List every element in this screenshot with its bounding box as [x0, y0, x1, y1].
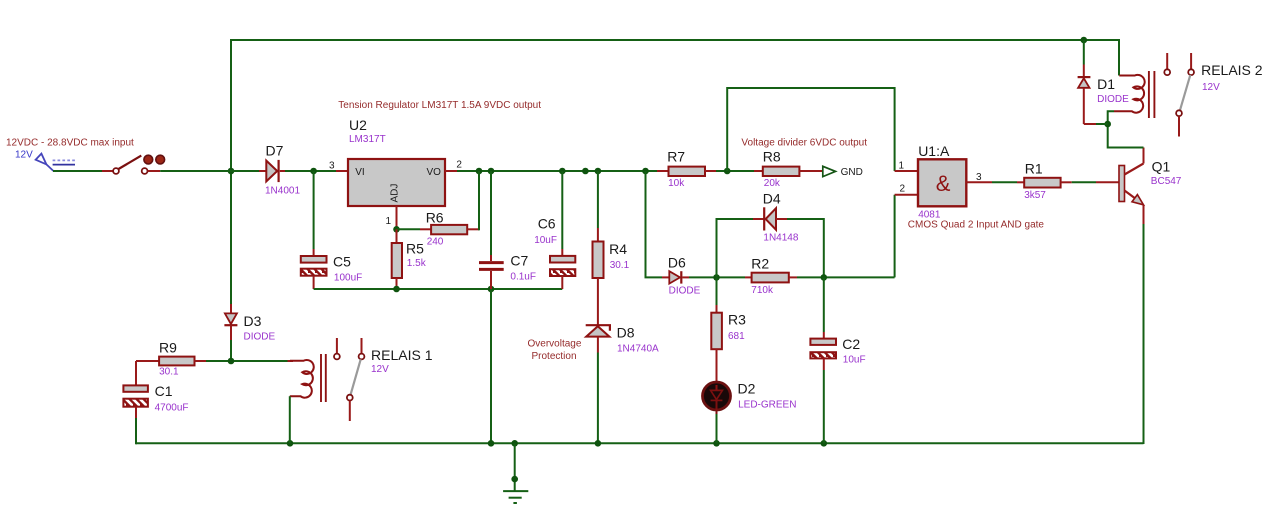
svg-text:&: &: [936, 171, 951, 196]
node junction R7/R8 divider tap: [724, 168, 731, 175]
wire D4 right side down to R2 right node: [787, 219, 824, 277]
svg-text:RELAIS 1: RELAIS 1: [371, 347, 433, 363]
svg-text:R3: R3: [728, 312, 746, 328]
capacitor C6: [534, 171, 575, 289]
wire R6 up to rail: [478, 171, 480, 230]
wire U1 pin3 to R1: [966, 181, 992, 183]
svg-text:681: 681: [728, 331, 745, 342]
svg-text:DIODE: DIODE: [1097, 94, 1129, 105]
svg-text:R2: R2: [751, 256, 769, 272]
svg-text:12V: 12V: [15, 150, 33, 161]
resistor R7: [657, 149, 716, 189]
relay 2 contacts: [1164, 53, 1262, 137]
svg-text:30.1: 30.1: [159, 367, 179, 378]
svg-text:D4: D4: [763, 190, 781, 206]
capacitor C7: [479, 171, 536, 289]
diode D7: [259, 143, 300, 197]
svg-text:C5: C5: [333, 253, 351, 269]
wire ADJ to R6: [397, 228, 421, 230]
svg-text:0.1uF: 0.1uF: [510, 272, 536, 283]
inductor relay 2 coil: [1114, 71, 1154, 118]
svg-text:12V: 12V: [371, 364, 389, 375]
svg-text:DIODE: DIODE: [669, 285, 701, 296]
svg-text:VO: VO: [427, 167, 442, 178]
svg-text:DIODE: DIODE: [244, 332, 276, 343]
svg-text:D7: D7: [266, 143, 284, 159]
svg-text:R1: R1: [1025, 160, 1043, 176]
resistor R8: [754, 149, 822, 189]
svg-text:U1:A: U1:A: [918, 143, 950, 159]
wire U2 pin1 ADJ lead: [396, 206, 398, 229]
wire C7 column continues to bottom rail: [490, 289, 492, 443]
wire C2 to bottom rail: [823, 370, 825, 443]
svg-text:RELAIS 2: RELAIS 2: [1201, 62, 1263, 78]
svg-text:10uF: 10uF: [534, 235, 557, 246]
transistor Q1 BC547: [1119, 148, 1182, 225]
capacitor C2: [810, 277, 865, 370]
wire regulator bottom line: [314, 288, 563, 290]
wire D7 to U2 pin3: [285, 170, 336, 172]
svg-text:3k57: 3k57: [1024, 190, 1046, 201]
svg-text:R7: R7: [667, 149, 685, 165]
wire Q1 collector feed: [1108, 111, 1144, 147]
svg-text:R8: R8: [763, 149, 781, 165]
svg-text:C1: C1: [155, 383, 173, 399]
svg-text:GND: GND: [841, 167, 863, 178]
svg-text:LED-GREEN: LED-GREEN: [738, 400, 796, 411]
svg-text:10uF: 10uF: [843, 355, 866, 366]
wire R7 to R8: [716, 170, 754, 172]
svg-text:1N4148: 1N4148: [763, 233, 798, 244]
svg-text:ADJ: ADJ: [390, 184, 401, 203]
svg-text:C6: C6: [538, 216, 556, 232]
ground: [503, 443, 528, 503]
svg-text:C2: C2: [842, 336, 860, 352]
node junction R5 bottom: [393, 286, 400, 293]
svg-text:D8: D8: [617, 324, 635, 340]
svg-text:4700uF: 4700uF: [155, 403, 189, 414]
wire relay1 coil to bottom rail: [289, 396, 291, 443]
svg-text:Protection: Protection: [532, 351, 577, 362]
wire D8 to bottom rail: [597, 353, 599, 444]
svg-text:D1: D1: [1097, 76, 1115, 92]
op-amp U2 LM317T regulator box: [348, 117, 445, 206]
resistor R4: [593, 171, 630, 325]
wire D4 bypass loop: [717, 219, 754, 277]
capacitor C1: [123, 361, 188, 418]
wire battery to switch: [53, 170, 102, 172]
svg-text:D3: D3: [244, 313, 262, 329]
svg-text:Q1: Q1: [1152, 159, 1171, 175]
svg-text:240: 240: [427, 237, 444, 248]
LED D2: [703, 380, 797, 414]
op-amp U1:A AND gate 4081: [899, 143, 983, 220]
svg-text:LM317T: LM317T: [349, 134, 386, 145]
wire D6 branch down from rail: [646, 171, 663, 277]
wire Q1 emitter to bottom rail: [1143, 224, 1145, 444]
svg-text:R5: R5: [406, 240, 424, 256]
resistor R5: [392, 229, 427, 289]
wire R2 to U1 pin2 loop: [797, 276, 895, 278]
capacitor C5: [301, 171, 362, 289]
node junction D3 / R9 row: [228, 358, 235, 365]
svg-text:VI: VI: [355, 167, 364, 178]
diode D3: [224, 304, 275, 343]
svg-text:C7: C7: [510, 252, 528, 268]
wire R9 row: [206, 360, 288, 362]
svg-text:R6: R6: [426, 210, 444, 226]
switch SW1: [102, 170, 113, 172]
inductor relay 1 coil: [288, 354, 326, 402]
wire R1 to Q1 base: [1072, 181, 1096, 183]
svg-text:1N4740A: 1N4740A: [617, 343, 659, 354]
diode D4: [753, 190, 799, 243]
resistor R2: [745, 256, 797, 297]
node main rail junction at x=231: [228, 168, 235, 175]
wire top rail: [231, 39, 1119, 41]
node junction x=313.6 main rail: [310, 168, 317, 175]
battery source symbol: [36, 154, 54, 171]
resistor R1: [1017, 160, 1072, 201]
node GND terminal: [823, 166, 836, 176]
svg-text:R9: R9: [159, 339, 177, 355]
node junction D6/R3/D4: [713, 274, 720, 281]
svg-text:Tension Regulator LM317T 1.5A: Tension Regulator LM317T 1.5A 9VDC outpu…: [338, 100, 541, 111]
wire left vertical feed x=231 top rail to R9 row: [230, 39, 232, 304]
svg-text:1.5k: 1.5k: [407, 258, 427, 269]
svg-text:2: 2: [456, 160, 462, 171]
svg-text:1: 1: [386, 216, 392, 227]
node ADJ junction: [393, 226, 400, 233]
svg-text:12V: 12V: [1202, 82, 1220, 93]
svg-text:2: 2: [900, 184, 906, 195]
wire bottom rail: [136, 442, 1144, 444]
svg-text:R4: R4: [609, 241, 627, 257]
node junctions on rail after U2: [476, 168, 483, 175]
resistor R6: [420, 210, 479, 248]
svg-text:100uF: 100uF: [334, 273, 362, 284]
wire pin3 lead: [336, 170, 348, 172]
node bottom rail junctions: [287, 440, 294, 447]
diode D8 zener: [586, 324, 659, 354]
svg-text:Overvoltage: Overvoltage: [528, 338, 582, 349]
svg-text:D2: D2: [738, 380, 756, 396]
node junction top rail D1: [1081, 37, 1088, 44]
resistor R3: [711, 277, 746, 383]
svg-text:710k: 710k: [751, 285, 774, 296]
svg-text:10k: 10k: [668, 178, 685, 189]
svg-text:BC547: BC547: [1151, 176, 1182, 187]
svg-text:1N4001: 1N4001: [265, 185, 300, 196]
wire C1 to bottom rail: [135, 418, 137, 444]
wire U2 pin2 VO: [445, 170, 457, 172]
svg-text:1: 1: [899, 161, 905, 172]
svg-text:Voltage divider 6VDC output: Voltage divider 6VDC output: [741, 137, 867, 148]
diode D6: [662, 255, 701, 297]
node junction C7 bottom: [488, 286, 495, 293]
relay 1 contacts: [334, 338, 433, 421]
svg-text:12VDC - 28.8VDC max input: 12VDC - 28.8VDC max input: [6, 137, 134, 148]
wire voltage divider loop to U1 pin1: [727, 88, 894, 171]
svg-text:3: 3: [329, 161, 335, 172]
svg-text:D6: D6: [668, 255, 686, 271]
svg-text:U2: U2: [349, 117, 367, 133]
wire D2 to bottom rail: [716, 414, 718, 443]
diode D1: [1078, 40, 1130, 124]
wire top rail right end down to relay 2 coil: [1118, 39, 1120, 76]
node junction D1/coil: [1104, 121, 1111, 128]
wire D6 to R2: [689, 276, 745, 278]
svg-text:30.1: 30.1: [610, 260, 630, 271]
svg-text:CMOS Quad 2 Input AND gate: CMOS Quad 2 Input AND gate: [908, 219, 1045, 230]
resistor R9: [136, 339, 206, 377]
wire switch to D7: [160, 170, 259, 172]
svg-text:20k: 20k: [764, 178, 781, 189]
